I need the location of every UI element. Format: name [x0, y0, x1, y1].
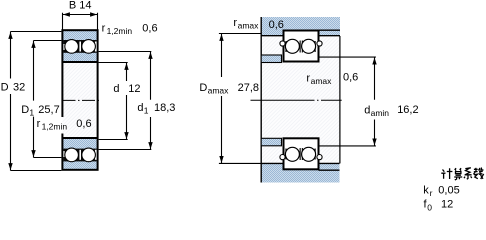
- svg-text:0,6: 0,6: [269, 19, 284, 31]
- svg-text:amin: amin: [371, 108, 390, 118]
- svg-text:1: 1: [144, 105, 149, 115]
- dimension d: bottom arrow: [124, 132, 128, 139]
- dimension d1: extension lines: [99, 52, 152, 150]
- svg-text:32: 32: [13, 82, 25, 94]
- svg-text:d: d: [113, 83, 119, 95]
- svg-text:1,2min: 1,2min: [42, 122, 68, 132]
- svg-text:0: 0: [427, 202, 432, 212]
- damin top arrow: [372, 58, 376, 65]
- bore interior hatch: [62, 63, 95, 137]
- groove notch bottom-right face: [317, 155, 322, 160]
- svg-text:r: r: [102, 22, 106, 34]
- top ball 1: [65, 40, 79, 54]
- figure right face: [339, 36, 341, 163]
- bottom ball 1: [65, 148, 79, 162]
- top right cage sliver: [95, 42, 97, 52]
- svg-text:D: D: [21, 104, 29, 116]
- shaft shoulder bottom face + damin extension: [319, 145, 376, 147]
- dimension D1: top arrow: [31, 41, 35, 48]
- dimension B: right arrow: [90, 12, 97, 16]
- dimension D1: line: [33, 41, 35, 158]
- dimension D: line: [10, 32, 12, 171]
- svg-text:12: 12: [441, 199, 453, 211]
- right bottom ball 2: [302, 147, 316, 161]
- bottom cage bar left: [285, 149, 286, 160]
- bottom middle cage sliver: [79, 150, 81, 160]
- support band top border: [261, 162, 340, 164]
- svg-text:1: 1: [29, 107, 34, 117]
- shaft shoulder top face + damin extension: [319, 56, 376, 58]
- title 计算系数 drawn as vector strokes: [441, 168, 483, 181]
- top cage bar left: [285, 41, 286, 52]
- bore right wall: [97, 63, 99, 137]
- bottom cage bars middle: [300, 148, 301, 160]
- svg-text:27,8: 27,8: [238, 82, 259, 94]
- svg-text:1,2min: 1,2min: [107, 26, 133, 36]
- char 数: [473, 168, 483, 180]
- char 算: [454, 168, 462, 180]
- dimension Damax line: [221, 34, 223, 164]
- shaft centerline: [251, 99, 342, 101]
- dimension damin line: [374, 57, 376, 146]
- svg-text:amax: amax: [238, 21, 260, 31]
- right bearing top section outline: [283, 30, 320, 63]
- support bore line right: [319, 169, 340, 171]
- bearing centerline: [63, 99, 100, 101]
- dimension d: top arrow: [124, 63, 128, 70]
- damin bottom arrow: [372, 139, 376, 146]
- svg-text:0,6: 0,6: [343, 72, 358, 84]
- bore left wall: [61, 63, 63, 117]
- groove notch top-left face: [280, 41, 285, 46]
- bottom cage bar right: [315, 149, 316, 160]
- svg-text:25,7: 25,7: [38, 104, 59, 116]
- top ball 2: [82, 40, 96, 54]
- svg-text:d: d: [364, 104, 370, 116]
- top section outline: [61, 29, 98, 63]
- top cage bars middle: [300, 41, 301, 53]
- dimension d: line: [126, 63, 128, 140]
- right top ball 1: [285, 39, 299, 53]
- svg-text:amax: amax: [311, 76, 333, 86]
- dimension B: extension lines: [63, 13, 98, 30]
- bottom ball 2: [82, 148, 96, 162]
- dimension D: top arrow: [8, 32, 12, 39]
- svg-text:d: d: [137, 102, 143, 114]
- right bottom ball 1: [285, 147, 299, 161]
- dimension d1: bottom arrow: [148, 142, 152, 149]
- svg-text:D: D: [199, 82, 207, 94]
- svg-text:12: 12: [128, 83, 140, 95]
- bottom ball strip (dark): [63, 149, 96, 162]
- groove notch top-right face: [317, 41, 322, 46]
- svg-text:0,05: 0,05: [438, 185, 459, 197]
- svg-text:D: D: [1, 82, 9, 94]
- top ball strip (dark): [63, 40, 96, 53]
- housing shoulder border left: [261, 35, 283, 37]
- svg-text:amax: amax: [208, 85, 230, 95]
- support band bottom (blue): [261, 164, 340, 183]
- ramax leader / Damax top extension: [219, 33, 261, 35]
- right top ball 2: [302, 39, 316, 53]
- dimension d1: top arrow: [148, 52, 152, 59]
- shaft abutment strip top-left: [261, 55, 281, 63]
- svg-text:B 14: B 14: [69, 0, 92, 12]
- dimension D: extension lines: [11, 32, 62, 171]
- right bearing bottom section outline: [283, 137, 320, 170]
- top outer ring (blue): [63, 31, 96, 61]
- top left cage sliver: [63, 44, 64, 50]
- svg-text:0,6: 0,6: [142, 22, 157, 34]
- top middle cage sliver: [79, 42, 81, 52]
- shaft interior hatch: [262, 36, 340, 164]
- dimension D: bottom arrow: [8, 163, 12, 170]
- bottom left cage sliver: [63, 151, 64, 157]
- svg-text:r: r: [430, 188, 433, 198]
- top cage bar right: [315, 41, 316, 52]
- svg-text:r: r: [37, 118, 41, 130]
- char 计: [441, 168, 452, 179]
- char 系: [464, 168, 472, 179]
- Damax bottom extension: [219, 162, 261, 164]
- bottom right cage sliver: [95, 150, 97, 160]
- dimension d1: line: [150, 52, 152, 150]
- right bearing bottom section interior: [285, 139, 318, 168]
- figure left face: [260, 17, 262, 183]
- dimension D1: bottom arrow: [31, 150, 35, 157]
- bottom inner ring (blue): [63, 139, 96, 169]
- dimension B: left arrow: [63, 12, 70, 16]
- housing band (blue): [261, 17, 340, 36]
- bottom section outline: [61, 137, 98, 171]
- svg-text:18,3: 18,3: [154, 102, 175, 114]
- svg-text:0,6: 0,6: [76, 118, 91, 130]
- housing bore line right: [319, 29, 341, 31]
- dimension d: extension lines: [99, 63, 128, 140]
- dimension D1: extension lines: [34, 41, 62, 158]
- svg-text:16,2: 16,2: [397, 104, 418, 116]
- shaft abutment strip bottom-left: [261, 138, 281, 146]
- right bearing top section interior: [285, 32, 318, 61]
- groove notch bottom-left face: [280, 155, 285, 160]
- housing border right: [319, 35, 341, 37]
- Damax top arrow: [219, 34, 223, 41]
- dimension B: line: [63, 14, 98, 16]
- svg-text:k: k: [423, 185, 429, 197]
- Damax bottom arrow: [219, 156, 223, 163]
